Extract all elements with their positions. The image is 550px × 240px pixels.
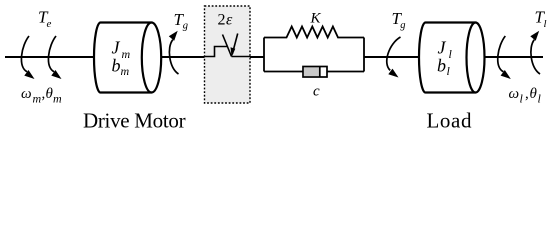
svg-text:c: c — [313, 84, 320, 100]
svg-text:J: J — [112, 38, 121, 58]
svg-text:l: l — [544, 18, 547, 30]
svg-text:g: g — [400, 20, 405, 31]
svg-text:m: m — [122, 47, 131, 61]
svg-text:K: K — [310, 10, 322, 26]
svg-text:b: b — [112, 56, 121, 76]
svg-text:θ: θ — [530, 86, 538, 102]
svg-text:m: m — [121, 64, 130, 78]
svg-text:ω: ω — [509, 86, 520, 102]
svg-text:m: m — [33, 92, 42, 106]
svg-text:b: b — [437, 56, 446, 76]
svg-text:ω: ω — [21, 86, 32, 102]
svg-text:g: g — [183, 21, 188, 32]
svg-text:Load: Load — [427, 109, 473, 133]
svg-text:Drive Motor: Drive Motor — [83, 109, 186, 133]
svg-text:2: 2 — [218, 12, 226, 29]
svg-text:ε: ε — [226, 12, 233, 29]
svg-text:J: J — [438, 38, 447, 58]
svg-text:,: , — [525, 86, 529, 102]
svg-text:e: e — [47, 18, 52, 30]
svg-text:m: m — [53, 92, 62, 106]
